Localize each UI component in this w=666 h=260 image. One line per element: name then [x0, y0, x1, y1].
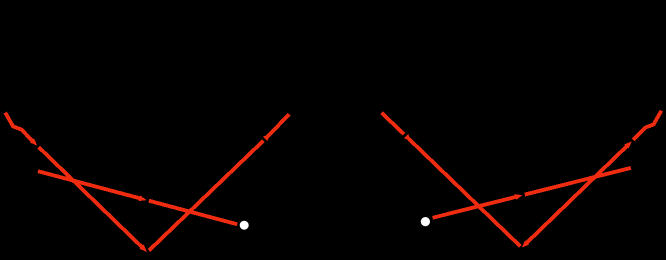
arrowhead: left reflected ray mid arrow: [263, 134, 271, 141]
arrowhead: right reflected ray vertex arrow: [522, 240, 530, 247]
wire: right incident ray upper segment: [382, 113, 405, 135]
arrowhead: left incident ray vertex arrow: [140, 245, 147, 252]
arrowhead: left incident ray mid arrow: [30, 138, 37, 145]
wire: left reflected ray lower segment: [149, 141, 264, 251]
arrowhead: right reflected ray mid arrow: [624, 141, 632, 148]
node: left image point dot: [240, 221, 249, 230]
wire: left extension ray right segment: [149, 201, 237, 225]
wire: left reflected ray upper segment: [267, 114, 289, 137]
arrowhead: right incident ray mid arrow: [404, 134, 412, 141]
wire: left incident ray lower segment: [39, 147, 144, 249]
wire: right extension ray left segment: [433, 196, 518, 217]
wire: right reflected ray lower segment: [525, 145, 628, 244]
wire: left extension ray left segment: [38, 171, 142, 199]
wire: left incident ray upper segment: [5, 113, 33, 143]
node: right image point dot: [421, 217, 430, 226]
arrowhead: right extension ray mid arrow: [515, 194, 523, 200]
wire: right reflected ray upper segment: [633, 111, 661, 140]
wire: right extension ray right segment: [525, 168, 631, 195]
arrowhead: left extension ray mid arrow: [139, 195, 147, 201]
wire: right incident ray lower segment: [409, 139, 521, 247]
